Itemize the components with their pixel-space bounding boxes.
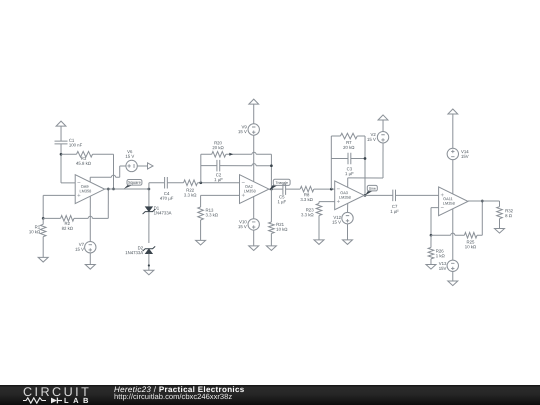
node junction [270,164,273,167]
svg-text:82 kΩ: 82 kΩ [62,226,74,231]
wire [382,120,384,132]
svg-text:15 V: 15 V [332,220,341,225]
resistor R8 [300,186,314,192]
wire output of OA2 [269,188,283,190]
wire [137,165,147,167]
node Square flag [124,185,133,189]
wire [270,189,272,222]
voltage source V13 [447,260,458,271]
ground [85,265,95,270]
wire op-amp V+ pin [452,160,454,194]
voltage source V7 [85,242,96,253]
svg-text:LM358: LM358 [79,188,91,193]
svg-text:1 µF: 1 µF [390,209,399,214]
svg-text:10 kΩ: 10 kΩ [465,244,477,249]
wire [148,189,150,207]
wire output of OA11 [468,200,500,202]
wire [148,183,150,189]
resistor R22 [184,180,198,186]
svg-text:LM358: LM358 [339,195,351,200]
svg-text:1N4733A: 1N4733A [154,210,172,215]
power flag VCC (stage 4 top) [448,109,458,114]
voltage source V14 [447,148,458,159]
wire op-amp V+ pin [382,143,384,178]
node junction [199,181,202,184]
wire [364,136,366,195]
svg-text:Triangle: Triangle [275,181,288,185]
wire [286,188,301,190]
wire [148,212,150,243]
wire [167,182,183,184]
wire op-amp V- pin [346,203,348,212]
diode D2 1N4733A [145,249,152,254]
wire [148,254,150,271]
CircuitLab logo [23,384,91,398]
voltage source V6 [126,160,137,171]
node junction [481,200,484,203]
wire [319,201,335,203]
wire [452,114,454,148]
svg-text:Square: Square [128,180,142,185]
node junction [270,188,273,191]
capacitor C2 [201,165,217,167]
wire op-amp V+ pin [253,135,255,182]
wire [452,271,454,281]
wire [200,154,202,183]
ground [314,240,324,245]
power flag VCC (stage 3 top) [378,115,388,120]
ground [249,246,259,251]
node Triangle flag [269,185,277,190]
wire [253,230,255,246]
ground [448,281,458,286]
diode D1 1N4733A [145,207,152,212]
node junction [148,188,151,191]
svg-text:470 µF: 470 µF [160,196,174,201]
svg-text:+: + [241,193,245,199]
svg-text:15 V: 15 V [238,129,247,134]
svg-text:3.3 kΩ: 3.3 kΩ [205,212,218,217]
op-amp OA2 [239,175,268,204]
ground [38,257,48,262]
wire [89,253,91,265]
wire [430,235,432,247]
svg-text:8 Ω: 8 Ω [505,213,513,218]
svg-text:15 V: 15 V [75,247,84,252]
resistor R32 [497,207,503,219]
wire [330,136,332,189]
capacitor C3 [331,158,348,160]
current marker [229,153,233,156]
wire op-amp V- pin [89,196,91,241]
wire [431,234,451,236]
wire [481,201,483,235]
power flag VCC (stage 1 top) [56,121,66,126]
op-amp OA3 [335,181,364,210]
svg-text:20 kΩ: 20 kΩ [343,145,355,150]
svg-text:+: + [337,199,341,205]
svg-text:Sine: Sine [369,187,376,191]
wire output of OA3 [364,194,393,196]
resistor R1 [42,218,44,224]
voltage source V12 [342,212,353,223]
voltage source V10 [248,219,259,230]
capacitor C4 [164,177,166,189]
ground [266,246,276,251]
wire [107,189,109,218]
wire [270,154,272,189]
svg-text:1 µF: 1 µF [345,171,354,176]
wire [396,194,439,196]
svg-text:LM358: LM358 [244,188,256,193]
svg-text:+: + [77,193,81,199]
svg-text:3.3 kΩ: 3.3 kΩ [184,192,197,197]
voltage source V2 [377,132,388,143]
capacitor C1 [55,140,68,142]
svg-text:1 µF: 1 µF [214,177,223,182]
svg-text:15 V: 15 V [125,154,134,159]
node junction [148,264,150,266]
node junction [60,153,63,156]
svg-text:15 V: 15 V [238,224,247,229]
wire op-amp V- pin [253,196,255,218]
ground [144,270,154,275]
node junction [430,234,433,237]
wire [346,224,348,240]
node junction [364,194,367,197]
svg-text:15V: 15V [439,266,447,271]
wire op-amp V+ pin [89,177,91,182]
power flag VCC (stage 2 top) [249,99,259,104]
ground [342,240,352,245]
wire [43,194,75,196]
svg-text:10 kΩ: 10 kΩ [29,229,41,234]
svg-text:100 nF: 100 nF [69,143,83,148]
svg-text:15V: 15V [461,154,469,159]
resistor R3 [61,153,77,155]
resistor R23 [316,204,322,216]
wire [60,144,62,183]
resistor R2 [43,217,60,219]
svg-text:1 kΩ: 1 kΩ [436,253,446,258]
wire [431,207,439,209]
svg-text:10 kΩ: 10 kΩ [276,227,288,232]
resistor R25 [464,232,477,238]
wire output of OA9 [105,188,149,190]
svg-text:LM358: LM358 [443,201,455,206]
node junction [107,188,110,191]
capacitor C7 [392,190,394,202]
svg-text:3.3 kΩ: 3.3 kΩ [300,197,313,202]
resistor R21 [269,222,275,234]
wire op-amp V- pin [452,209,454,260]
ground [196,240,206,245]
svg-text:1N4733A: 1N4733A [125,250,143,255]
footer bar [0,385,540,405]
voltage source V9 [248,124,259,135]
svg-text:−: − [441,205,445,211]
node flag (arrow) [148,163,154,169]
node Sine flag [365,191,373,196]
wire [253,104,255,124]
resistor R20 [201,153,212,155]
node junction [112,188,115,191]
node junction [330,188,333,191]
node junction [364,157,367,160]
wire [60,126,62,141]
resistor R13 [198,207,204,220]
svg-text:1 µF: 1 µF [277,199,286,204]
op-amp OA9 [75,175,104,204]
op-amp OA11 [439,187,468,216]
wire [61,182,75,184]
ground [494,228,504,233]
capacitor C5 [282,183,284,195]
wire [201,194,240,196]
svg-text:20 kΩ: 20 kΩ [212,145,224,150]
wire [113,154,115,189]
resistor R26 [428,247,434,258]
ground [426,264,436,269]
node junction [42,217,45,220]
resistor R7 [331,135,340,137]
svg-text:15 V: 15 V [367,137,376,142]
svg-text:3.3 kΩ: 3.3 kΩ [301,212,314,217]
svg-text:45.8 kΩ: 45.8 kΩ [76,161,92,166]
